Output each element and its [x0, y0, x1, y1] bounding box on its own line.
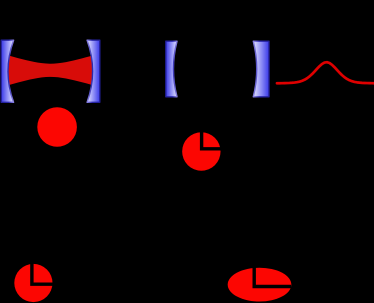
clock 2 face — [14, 264, 52, 302]
clock 3 face (squashed ellipse) — [228, 268, 292, 302]
atom (red ball) — [37, 107, 77, 147]
gaussian pulse curve — [277, 62, 374, 83]
clock 1 hands — [202, 132, 221, 149]
clock 2 hands — [32, 264, 53, 285]
left cavity: left mirror — [1, 40, 13, 102]
middle cavity: left mirror — [166, 41, 177, 97]
clock 1 face — [182, 132, 220, 170]
middle cavity: right mirror — [253, 41, 269, 97]
intracavity light beam (bowtie mode) — [8, 56, 92, 85]
clock 3 hands — [254, 267, 291, 286]
left cavity: right mirror — [87, 40, 100, 102]
